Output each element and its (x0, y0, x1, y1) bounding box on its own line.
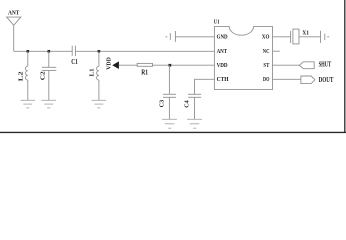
capacitor C1 (71, 46, 73, 56)
svg-text:L2: L2 (17, 71, 24, 81)
wire to GND pin (175, 36, 214, 38)
connector SHUT (299, 62, 314, 69)
wire ANT bus (14, 50, 72, 52)
svg-text:ST: ST (263, 62, 269, 69)
wire stub right of load capacitor (327, 36, 329, 38)
NC stub (273, 50, 280, 52)
node C2 junction (48, 50, 51, 53)
svg-text:SHUT: SHUT (319, 60, 332, 69)
load capacitor right plate (324, 34, 326, 40)
wire R1 to VDD pin (153, 64, 215, 66)
wire DO (273, 78, 301, 80)
svg-text:VDD: VDD (105, 57, 112, 70)
svg-text:C2: C2 (40, 71, 47, 80)
wire CTH (195, 79, 215, 94)
capacitor C3 (168, 65, 170, 94)
capacitor C4 (188, 93, 201, 95)
wire ST (273, 64, 300, 66)
svg-text:C4: C4 (184, 99, 191, 107)
wire crystal to cap (299, 36, 321, 38)
svg-text:L1: L1 (88, 69, 95, 77)
wire antenna down (13, 25, 15, 51)
crystal X1 body (293, 29, 299, 44)
node L1 junction (98, 50, 101, 53)
svg-text:CTH: CTH (217, 76, 230, 83)
svg-text:ANT: ANT (8, 10, 20, 17)
resistor R1 (137, 63, 152, 66)
wire VDD to R1 (119, 64, 137, 66)
node C3 junction (169, 64, 172, 67)
svg-text:NC: NC (263, 48, 270, 55)
svg-text:R1: R1 (141, 70, 148, 77)
load capacitor left plate (320, 31, 322, 43)
ground under L2 (21, 100, 36, 108)
VDD arrow (112, 61, 119, 69)
wire stub left of GND capacitor (166, 36, 168, 38)
inductor L1 (97, 51, 99, 100)
svg-text:X1: X1 (302, 30, 309, 37)
wire bus right of C1 (75, 50, 214, 52)
wire XO to crystal (273, 36, 291, 38)
antenna symbol (7, 17, 21, 25)
crystal X1 plate (290, 31, 292, 43)
IC U1 (214, 27, 272, 90)
ground under C4 (187, 119, 202, 128)
inductor L2 (26, 51, 28, 100)
ground under L1 (92, 100, 107, 108)
ground under C3 (162, 119, 177, 128)
svg-text:ANT: ANT (217, 48, 228, 55)
svg-text:XO: XO (262, 34, 270, 41)
svg-text:C3: C3 (159, 100, 166, 108)
capacitor C2 (48, 51, 50, 67)
svg-text:DO: DO (263, 76, 269, 83)
capacitor on GND pin, left plate (169, 33, 171, 40)
svg-text:GND: GND (217, 34, 228, 41)
capacitor on GND pin, right plate (174, 31, 176, 42)
svg-text:U1: U1 (214, 18, 220, 25)
svg-text:C1: C1 (71, 59, 78, 66)
ground under C2 (42, 100, 57, 108)
svg-text:VDD: VDD (217, 62, 228, 69)
node L2 junction (27, 50, 30, 53)
connector DOUT (301, 76, 315, 84)
svg-text:DOUT: DOUT (319, 75, 334, 84)
